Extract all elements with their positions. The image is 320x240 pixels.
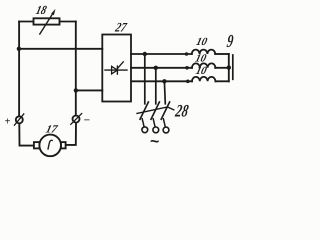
wire phase 3 xyxy=(131,80,192,82)
wire phase 3 right (coil to bus) xyxy=(216,80,229,82)
svg-text:18: 18 xyxy=(34,5,48,18)
svg-text:−: − xyxy=(84,115,90,127)
rheostat arrowhead xyxy=(51,9,55,15)
inductor 10 phase 2 xyxy=(192,63,215,67)
wire DC bus B (junction to box 27 lower input) xyxy=(76,89,103,91)
wire bus vertical right (element 9 connection) xyxy=(228,54,230,81)
wire phase 1 right (coil to bus) xyxy=(215,53,229,55)
switch blade 1 xyxy=(140,102,148,119)
rotor bar 9 xyxy=(232,55,234,79)
resistor rheostat 18 body xyxy=(34,18,60,24)
node dot before coil 3 xyxy=(186,80,190,84)
wire top rail left xyxy=(19,21,33,23)
wire switch drop 2 xyxy=(155,68,157,104)
node dot before coil 1 xyxy=(185,52,189,56)
svg-text:10: 10 xyxy=(195,36,209,48)
svg-text:+: + xyxy=(5,116,11,127)
label G inside generator xyxy=(48,140,53,149)
wire switch drop 3 xyxy=(163,81,166,104)
motor wire stub left terminal box xyxy=(34,142,40,148)
wire left vertical (from top rail to + terminal) xyxy=(18,22,20,117)
node dot bus-phase2 xyxy=(227,65,231,69)
svg-text:28: 28 xyxy=(173,102,190,121)
svg-text:17: 17 xyxy=(45,124,59,136)
node tap dot phase 3 xyxy=(162,79,166,83)
wire phase 2 xyxy=(131,67,192,69)
node tap dot phase 1 xyxy=(143,52,147,56)
generator G 17 circle xyxy=(39,135,61,157)
rheostat arrow shaft xyxy=(40,13,53,34)
switch blade 2 xyxy=(151,102,159,119)
node junction dot on left wire xyxy=(17,47,21,51)
wire DC bus A (junction to box 27 upper input) xyxy=(19,48,103,50)
thyristor cathode bar xyxy=(116,66,118,74)
wire phase 1 xyxy=(131,53,192,55)
thyristor gate xyxy=(117,62,123,69)
wire right branch vertical (rail to - terminal) xyxy=(75,22,77,116)
node dot before coil 2 xyxy=(185,66,189,70)
box converter 27 xyxy=(102,35,131,102)
terminal - (circle with slash) xyxy=(73,116,80,123)
node junction dot on right branch xyxy=(74,88,78,92)
wire top rail right xyxy=(60,21,76,23)
switch contact circle 3 xyxy=(163,127,169,133)
inductor 10 phase 1 xyxy=(192,50,215,54)
wire phase 2 right (coil to bus) xyxy=(215,67,229,69)
wire left vertical lower (terminal to bottom corner) xyxy=(19,123,34,145)
wire right branch lower (terminal to bottom corner) xyxy=(65,123,76,145)
thyristor triangle xyxy=(112,66,118,74)
motor terminal box right xyxy=(61,142,66,148)
inductor 10 phase 3 xyxy=(192,77,215,81)
switch blade 3 xyxy=(161,102,169,119)
svg-text:9: 9 xyxy=(226,32,235,52)
terminal + (circle with slash) xyxy=(16,116,23,123)
switch link line / leader to 28 xyxy=(137,107,174,113)
svg-text:~: ~ xyxy=(150,134,159,151)
switch contact circle 2 xyxy=(153,127,159,133)
switch lower stub 3 xyxy=(163,119,165,128)
svg-text:10: 10 xyxy=(194,52,208,64)
svg-text:10: 10 xyxy=(194,65,208,77)
wire switch drop 1 xyxy=(144,54,146,104)
node tap dot phase 2 xyxy=(154,66,158,70)
svg-text:27: 27 xyxy=(113,20,129,35)
switch lower stub 1 xyxy=(142,119,144,127)
thyristor lead wire xyxy=(105,69,127,71)
switch contact circle 1 xyxy=(142,127,148,133)
switch lower stub 2 xyxy=(153,119,155,128)
